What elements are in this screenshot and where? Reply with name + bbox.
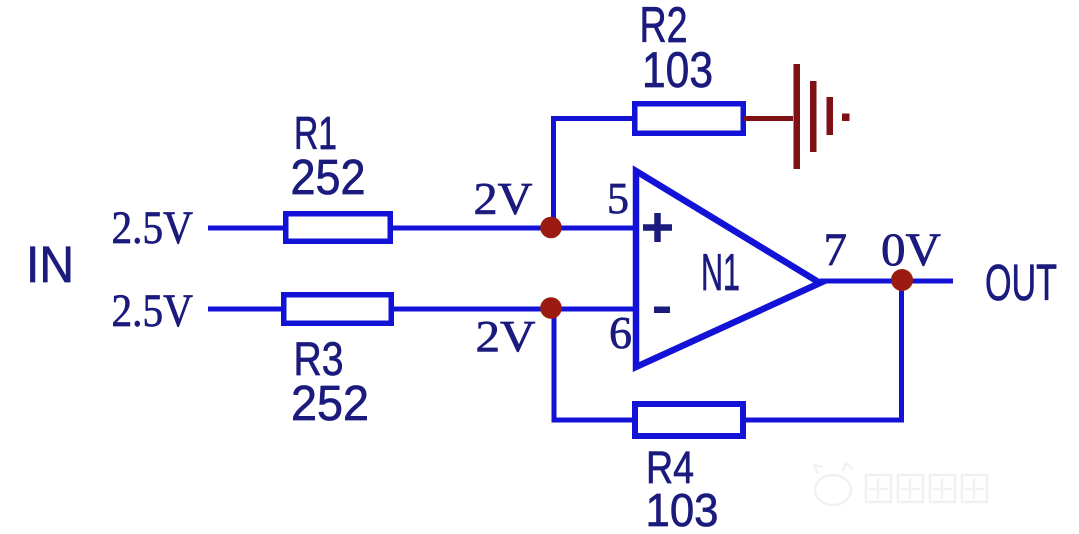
svg-text:252: 252 bbox=[291, 151, 366, 205]
svg-text:2.5V: 2.5V bbox=[112, 285, 194, 337]
svg-text:6: 6 bbox=[609, 307, 632, 358]
svg-text:103: 103 bbox=[646, 484, 719, 534]
wire R1 to op-amp pin 5 bbox=[390, 226, 636, 231]
wire bottom junction down and right to R4 bbox=[554, 309, 634, 420]
junction top node bbox=[540, 217, 562, 239]
plus input symbol bbox=[643, 213, 672, 242]
svg-text:2V: 2V bbox=[476, 312, 536, 361]
minus input symbol bbox=[654, 307, 670, 314]
svg-text:5: 5 bbox=[607, 174, 629, 223]
svg-text:0V: 0V bbox=[881, 224, 941, 276]
wire output bbox=[820, 279, 953, 284]
svg-text:252: 252 bbox=[291, 377, 369, 431]
resistor R4 bbox=[635, 404, 743, 436]
svg-text:OUT: OUT bbox=[985, 254, 1057, 311]
resistor R2 bbox=[635, 104, 744, 134]
op-amp N1 bbox=[636, 171, 820, 367]
svg-text:IN: IN bbox=[26, 236, 74, 293]
junction output node bbox=[891, 269, 913, 291]
svg-text:103: 103 bbox=[642, 42, 713, 98]
junction bottom node bbox=[540, 297, 562, 319]
wire R3 to op-amp pin 6 bbox=[392, 307, 636, 312]
svg-text:2.5V: 2.5V bbox=[112, 202, 194, 254]
wire top input to R1 bbox=[208, 226, 286, 231]
resistor R3 bbox=[284, 295, 392, 324]
wire R2 to ground bbox=[744, 116, 793, 121]
svg-text:2V: 2V bbox=[474, 174, 533, 224]
resistor R1 bbox=[286, 214, 391, 242]
wire R4 to output node bbox=[742, 281, 902, 420]
wire bottom input to R3 bbox=[208, 307, 286, 312]
svg-text:7: 7 bbox=[824, 224, 848, 276]
ground bbox=[794, 64, 850, 169]
wire top junction up and right to R2 bbox=[554, 119, 635, 229]
svg-text:N1: N1 bbox=[701, 244, 740, 302]
